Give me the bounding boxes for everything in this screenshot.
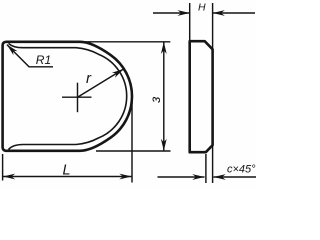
- arrowhead r: [112, 69, 124, 78]
- arrowhead L left: [3, 174, 15, 180]
- arrowhead c right: [214, 174, 226, 180]
- svg-text:з: з: [148, 96, 163, 103]
- centre cross: [62, 83, 92, 113]
- dimension B extension bottom: [96, 150, 171, 152]
- arrowhead B bottom: [161, 139, 167, 151]
- dimension H extension left: [189, 3, 191, 40]
- dimension H line right: [213, 12, 255, 14]
- front view chamfer inner line: [9, 43, 127, 149]
- dimension c extension left: [205, 154, 207, 183]
- svg-text:R1: R1: [36, 53, 51, 67]
- front view outer contour: [3, 42, 132, 151]
- arrowhead B top: [161, 42, 167, 54]
- dimension H line left: [153, 12, 190, 14]
- dimension c line left: [158, 176, 205, 178]
- dimension H extension right: [212, 3, 214, 49]
- dimension B extension top: [80, 41, 170, 43]
- arrowhead H left: [178, 10, 190, 16]
- svg-text:r: r: [86, 70, 92, 87]
- dimension c line right: [214, 176, 257, 178]
- arrowhead L right: [119, 174, 131, 180]
- dimension L extension right: [131, 97, 133, 183]
- arrowhead H right: [213, 10, 225, 16]
- leader R1: [7, 45, 53, 67]
- dimension L line: [3, 176, 132, 178]
- svg-text:H: H: [198, 2, 206, 14]
- svg-text:c×45°: c×45°: [227, 164, 256, 176]
- arrowhead R1: [7, 45, 18, 56]
- dimension B line: [163, 42, 165, 151]
- side view outline: [190, 41, 213, 152]
- arrowhead c left: [192, 174, 204, 180]
- dimension L extension left: [2, 154, 4, 181]
- leader r: [78, 69, 124, 97]
- dimension c extension right: [212, 146, 214, 183]
- svg-text:L: L: [63, 162, 71, 178]
